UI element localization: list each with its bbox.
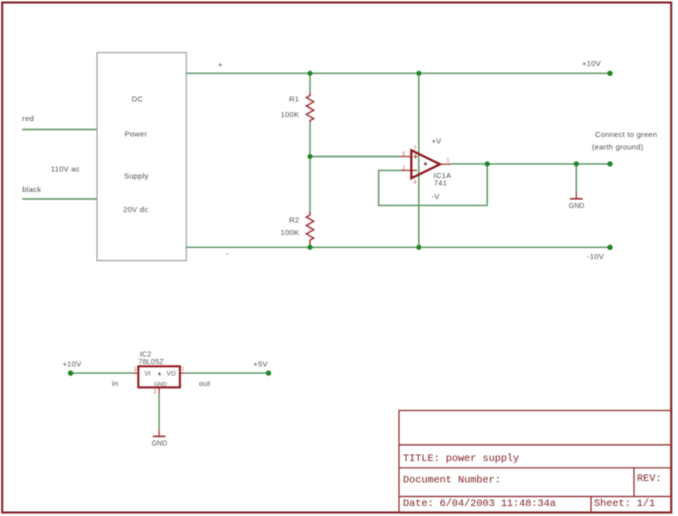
- svg-text:4: 4: [414, 180, 417, 186]
- svg-text:1: 1: [447, 158, 450, 164]
- junction dot: [307, 245, 312, 250]
- op-amp U1 pin3 lead: [401, 156, 411, 158]
- svg-text:Power: Power: [125, 130, 148, 139]
- op-amp U1 gate marker: [424, 162, 428, 166]
- regulator IC2 pin leads: [135, 373, 185, 393]
- svg-text:+5V: +5V: [253, 360, 268, 369]
- svg-text:GND: GND: [152, 441, 168, 448]
- wire black input: [22, 198, 97, 200]
- svg-text:100K: 100K: [281, 110, 300, 119]
- svg-text:(earth ground): (earth ground): [592, 142, 644, 151]
- svg-text:Supply: Supply: [124, 172, 149, 181]
- wire op-amp supply vertical: [418, 73, 420, 247]
- wire end dot: [607, 71, 612, 76]
- svg-text:-: -: [226, 249, 229, 258]
- svg-text:GND: GND: [154, 382, 166, 388]
- svg-text:VO: VO: [167, 371, 176, 378]
- svg-text:100K: 100K: [281, 228, 300, 237]
- wire gnd drop: [575, 164, 577, 192]
- svg-text:in: in: [112, 379, 118, 388]
- svg-text:Connect to green: Connect to green: [595, 130, 657, 139]
- DC power supply block: [97, 53, 186, 261]
- wire end dot: [607, 161, 612, 166]
- svg-text:2: 2: [403, 165, 406, 171]
- resistor R2: [306, 212, 313, 246]
- title block: [399, 411, 672, 514]
- op-amp U1 output lead: [440, 163, 451, 165]
- svg-text:1: 1: [181, 367, 184, 373]
- svg-text:R2: R2: [289, 216, 299, 225]
- resistor R1: [306, 93, 313, 123]
- wire resistor branch middle: [309, 123, 311, 212]
- svg-text:+: +: [218, 60, 223, 69]
- svg-text:+10V: +10V: [63, 360, 83, 369]
- ground symbol GND1: [569, 192, 585, 210]
- svg-text:GND: GND: [569, 203, 585, 210]
- wire resistor branch upper: [309, 73, 311, 92]
- regulator IC2 body: [138, 366, 180, 387]
- junction dot: [416, 245, 421, 250]
- junction dot: [307, 154, 312, 159]
- wire regulator output: [184, 372, 268, 374]
- svg-text:3: 3: [402, 152, 405, 158]
- svg-text:7: 7: [414, 146, 417, 152]
- svg-text:+V: +V: [432, 137, 443, 146]
- svg-text:78L05Z: 78L05Z: [138, 357, 164, 366]
- wire end dot: [607, 245, 612, 250]
- op-amp U1 pin2 lead: [401, 169, 417, 171]
- svg-text:out: out: [199, 379, 211, 388]
- svg-text:3: 3: [134, 367, 137, 373]
- svg-text:+10V: +10V: [582, 59, 602, 68]
- svg-text:Sheet: 1/1: Sheet: 1/1: [594, 498, 655, 510]
- wire +10V rail: [186, 72, 610, 74]
- svg-text:REV:: REV:: [637, 474, 661, 485]
- svg-text:Document Number:: Document Number:: [403, 475, 501, 487]
- svg-text:R1: R1: [289, 95, 299, 104]
- op-amp U1 triangle: [411, 150, 440, 178]
- wire -10V rail: [186, 246, 610, 248]
- wire regulator input: [71, 372, 135, 374]
- svg-text:-V: -V: [432, 192, 441, 201]
- wire red input: [22, 129, 97, 131]
- junction dot: [574, 161, 579, 166]
- junction dot: [307, 71, 312, 76]
- svg-text:20V dc: 20V dc: [123, 205, 148, 214]
- junction dot: [416, 71, 421, 76]
- svg-text:DC: DC: [132, 95, 144, 104]
- op-amp U1 plus mark: [413, 154, 417, 158]
- wire to pin 3: [310, 156, 401, 158]
- svg-text:TITLE: power supply: TITLE: power supply: [403, 453, 519, 465]
- svg-text:741: 741: [434, 179, 447, 188]
- svg-text:Date: 6/04/2003 11:48:34a: Date: 6/04/2003 11:48:34a: [403, 498, 556, 510]
- svg-text:black: black: [22, 185, 41, 194]
- svg-text:red: red: [22, 114, 34, 123]
- ground symbol GND2: [152, 431, 168, 448]
- wire output: [450, 163, 610, 165]
- svg-text:VI: VI: [145, 371, 151, 378]
- svg-text:110V ac: 110V ac: [51, 165, 80, 174]
- svg-text:-10V: -10V: [587, 252, 605, 261]
- wire feedback loop: [379, 164, 488, 206]
- wire resistor branch lower: [309, 246, 311, 248]
- wire end dot: [68, 370, 73, 375]
- regulator marker: [158, 372, 161, 375]
- svg-text:2: 2: [154, 390, 157, 396]
- wire regulator gnd drop: [158, 393, 160, 430]
- junction dot: [485, 161, 490, 166]
- wire end dot: [266, 370, 271, 375]
